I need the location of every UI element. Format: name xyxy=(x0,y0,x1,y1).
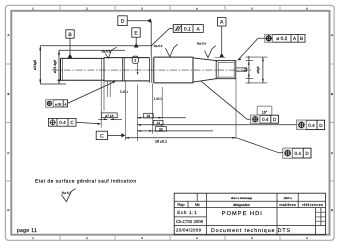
svg-text:B: B xyxy=(7,92,9,96)
runout FCF 0.4 C xyxy=(48,118,76,126)
right diameter dim extensions xyxy=(246,57,268,83)
svg-text:⌀8g6: ⌀8g6 xyxy=(256,66,260,73)
threaded end block outer xyxy=(216,61,236,79)
svg-text:28: 28 xyxy=(159,127,163,131)
taper section top xyxy=(193,58,216,61)
left diameter dim extension top 1 xyxy=(40,45,151,47)
left diameter dim extension bottom xyxy=(40,83,66,85)
svg-text:18 ±0.1: 18 ±0.1 xyxy=(155,140,167,144)
groove detail balloon xyxy=(132,56,138,63)
datum B box xyxy=(66,30,74,38)
svg-text:références: références xyxy=(302,203,323,207)
position FCF right 3 xyxy=(283,148,311,158)
shaft section 2 outline xyxy=(104,58,150,81)
end stub xyxy=(236,68,247,71)
svg-text:Ech 1:1: Ech 1:1 xyxy=(177,210,197,215)
leader to position FCF 3 xyxy=(237,138,284,153)
left diameter dim extension top 2 xyxy=(59,49,125,51)
svg-text:A: A xyxy=(7,33,9,37)
datum D leader xyxy=(127,20,147,22)
svg-text:Ch.CTSI 2009: Ch.CTSI 2009 xyxy=(176,219,204,224)
datum C triangle xyxy=(121,133,125,137)
diameter dim line 1 xyxy=(39,46,41,84)
zone tick marks top xyxy=(60,6,280,12)
zone tick marks left xyxy=(6,64,11,181)
shaft section 1 chamfer xyxy=(62,59,64,80)
svg-text:20/04/2009: 20/04/2009 xyxy=(176,227,202,232)
diameter dim line 2 xyxy=(58,50,60,84)
bottom dim line 2 / leader to position FCF right xyxy=(137,124,296,126)
zone tick marks right xyxy=(330,64,334,181)
datum E leader xyxy=(135,37,137,43)
svg-text:C: C xyxy=(7,151,9,155)
bottom dim line 1 xyxy=(137,117,186,119)
right diameter dim line 1 xyxy=(248,56,250,84)
title block mini grid rows xyxy=(316,212,326,221)
title block outer xyxy=(174,193,325,235)
svg-text:15°: 15° xyxy=(262,111,268,115)
svg-text:page 11: page 11 xyxy=(17,228,38,234)
position FCF right 2 xyxy=(297,120,325,129)
datum D box xyxy=(118,16,127,26)
svg-text:⌀24g6: ⌀24g6 xyxy=(33,60,37,70)
svg-text:désignation: désignation xyxy=(233,203,250,207)
parallelism FCF leader xyxy=(151,29,173,46)
step chamfer at section 1/2 xyxy=(101,59,103,80)
svg-text:0.4: 0.4 xyxy=(59,120,66,125)
balloon leader xyxy=(137,63,139,72)
svg-text:D: D xyxy=(7,208,9,212)
svg-text:B: B xyxy=(300,36,303,42)
svg-text:D: D xyxy=(121,19,125,25)
bottom dim extension lines xyxy=(125,79,236,141)
right diameter dim line 2 xyxy=(262,57,264,83)
position FCF right 1 xyxy=(251,115,279,123)
zone digits bottom xyxy=(32,237,308,240)
groove diameter boxed dim xyxy=(104,81,110,111)
parallelism FCF 0.1 A xyxy=(173,25,181,33)
svg-text:D: D xyxy=(331,208,333,212)
svg-text:Etat de surface général sauf i: Etat de surface général sauf indication xyxy=(35,179,136,185)
svg-text:⌀7.18: ⌀7.18 xyxy=(105,114,114,118)
svg-text:0.1: 0.1 xyxy=(184,26,191,32)
svg-text:0.4: 0.4 xyxy=(262,117,269,122)
svg-text:Rep: Rep xyxy=(177,202,184,207)
groove 2 neck xyxy=(150,58,152,83)
groove 1 xyxy=(122,58,124,81)
svg-text:2: 2 xyxy=(134,59,136,63)
zone letters left xyxy=(7,33,9,212)
svg-text:A: A xyxy=(331,33,333,37)
extension line to groove 2 xyxy=(150,21,152,58)
svg-text:0.4: 0.4 xyxy=(295,151,302,156)
shaft section 3 outline (large) xyxy=(154,57,193,83)
svg-text:C: C xyxy=(331,151,333,155)
svg-text:B: B xyxy=(331,92,333,96)
svg-text:C: C xyxy=(100,133,104,139)
datum C leader xyxy=(108,134,122,136)
svg-text:⌀.05: ⌀.05 xyxy=(55,102,62,106)
zone tick marks bottom xyxy=(60,235,280,240)
svg-text:8.5: 8.5 xyxy=(243,67,247,72)
svg-text:afnor a dessinage: afnor a dessinage xyxy=(231,197,253,200)
leader from taper to position FCF 1 xyxy=(201,81,251,119)
datum D triangle xyxy=(147,19,151,23)
svg-text:190X a: 190X a xyxy=(283,197,292,200)
threaded end block inner xyxy=(218,62,234,77)
taper section bottom xyxy=(193,79,216,82)
step edge section 1/2 xyxy=(103,58,105,81)
svg-text:⌀ 0.2: ⌀ 0.2 xyxy=(276,36,287,42)
svg-text:⌀19.4g6: ⌀19.4g6 xyxy=(53,60,57,73)
position FCF 0.2 A B xyxy=(265,34,305,42)
angle boxed label xyxy=(257,106,272,115)
svg-text:Ra 0.8: Ra 0.8 xyxy=(102,50,111,54)
svg-text:matières: matières xyxy=(279,203,296,207)
zone digits top xyxy=(32,8,308,11)
svg-text:Ra 0.4: Ra 0.4 xyxy=(154,44,163,48)
svg-text:2 ±0.1: 2 ±0.1 xyxy=(154,97,162,101)
svg-text:Ra 0.4: Ra 0.4 xyxy=(197,42,206,46)
datum E triangle xyxy=(134,43,139,48)
datum C box xyxy=(96,131,107,139)
svg-text:Document technique DTS: Document technique DTS xyxy=(211,228,291,234)
datum B leader xyxy=(69,38,71,54)
svg-text:POMPE HDI: POMPE HDI xyxy=(222,211,262,217)
concentricity FCF (left) xyxy=(46,100,68,107)
runout FCF leader xyxy=(76,122,99,124)
centerline (shaft axis) xyxy=(52,69,251,71)
datum E box xyxy=(132,28,140,37)
svg-text:Nb: Nb xyxy=(195,202,200,207)
svg-text:0.4: 0.4 xyxy=(308,123,315,128)
concentricity FCF leader xyxy=(68,82,114,104)
extension line step xyxy=(100,81,102,128)
zone letters right xyxy=(331,33,333,212)
bottom dim line 4 (overall) xyxy=(125,137,236,139)
datum A leader xyxy=(221,26,223,53)
bottom dim line 3 xyxy=(137,130,213,132)
datum A box xyxy=(217,18,226,26)
title block vertical lines xyxy=(188,193,321,235)
svg-text:2 ±0.1: 2 ±0.1 xyxy=(120,90,128,94)
datum B triangle xyxy=(68,54,73,58)
shaft section 1 outline (left end) xyxy=(58,58,105,80)
svg-text:24: 24 xyxy=(147,114,151,118)
datum A triangle xyxy=(215,56,226,58)
title block horizontal lines xyxy=(174,201,325,225)
position FCF leader (top right) xyxy=(239,38,265,59)
svg-text:14: 14 xyxy=(156,121,160,125)
